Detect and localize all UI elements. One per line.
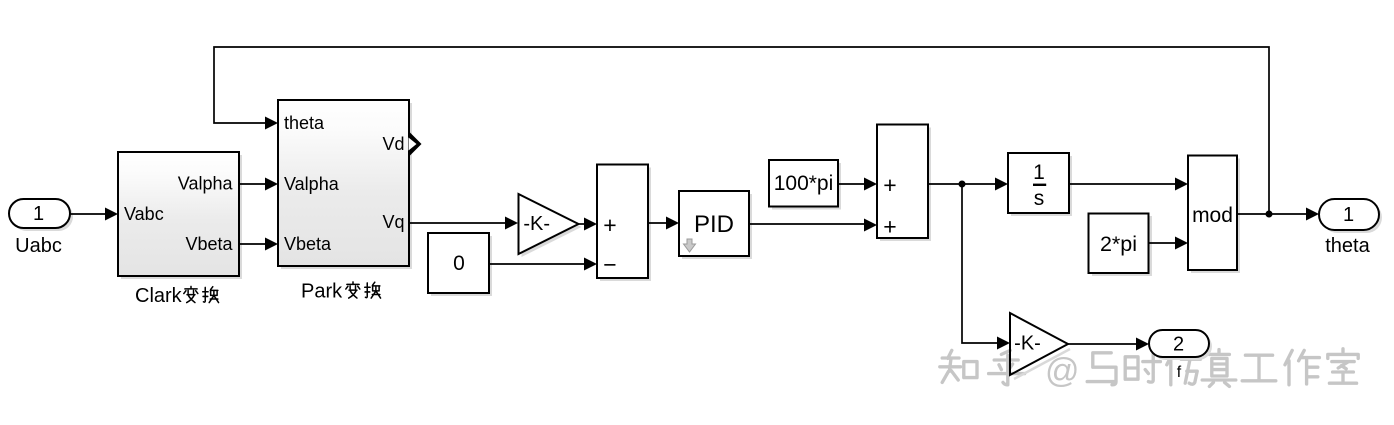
- svg-text:−: −: [603, 252, 616, 278]
- svg-text:PID: PID: [694, 211, 734, 238]
- svg-text:Vd: Vd: [382, 134, 404, 154]
- svg-text:0: 0: [453, 252, 465, 275]
- svg-text:2: 2: [1173, 334, 1184, 356]
- svg-text:mod: mod: [1192, 204, 1233, 227]
- svg-text:Vq: Vq: [382, 212, 404, 232]
- svg-text:Vbeta: Vbeta: [185, 234, 233, 254]
- svg-text:1: 1: [1343, 204, 1354, 226]
- svg-text:@: @: [1045, 352, 1080, 390]
- svg-text:100*pi: 100*pi: [774, 172, 834, 195]
- svg-text:1: 1: [33, 203, 44, 225]
- svg-text:-K-: -K-: [1014, 333, 1041, 355]
- svg-text:f: f: [1177, 364, 1182, 381]
- svg-text:1: 1: [1033, 161, 1045, 184]
- svg-text:+: +: [883, 214, 896, 240]
- svg-text:theta: theta: [1325, 235, 1370, 257]
- svg-text:+: +: [603, 212, 616, 238]
- svg-text:theta: theta: [284, 113, 325, 133]
- svg-text:Valpha: Valpha: [284, 174, 340, 194]
- svg-text:Clark: Clark: [135, 285, 183, 307]
- svg-text:Park: Park: [301, 281, 343, 303]
- svg-text:Vbeta: Vbeta: [284, 234, 332, 254]
- svg-text:Valpha: Valpha: [178, 174, 234, 194]
- svg-text:+: +: [883, 172, 896, 198]
- svg-text:-K-: -K-: [523, 213, 550, 235]
- svg-text:Uabc: Uabc: [15, 235, 62, 257]
- svg-text:s: s: [1034, 187, 1045, 210]
- svg-text:2*pi: 2*pi: [1100, 232, 1137, 256]
- svg-text:Vabc: Vabc: [124, 204, 164, 224]
